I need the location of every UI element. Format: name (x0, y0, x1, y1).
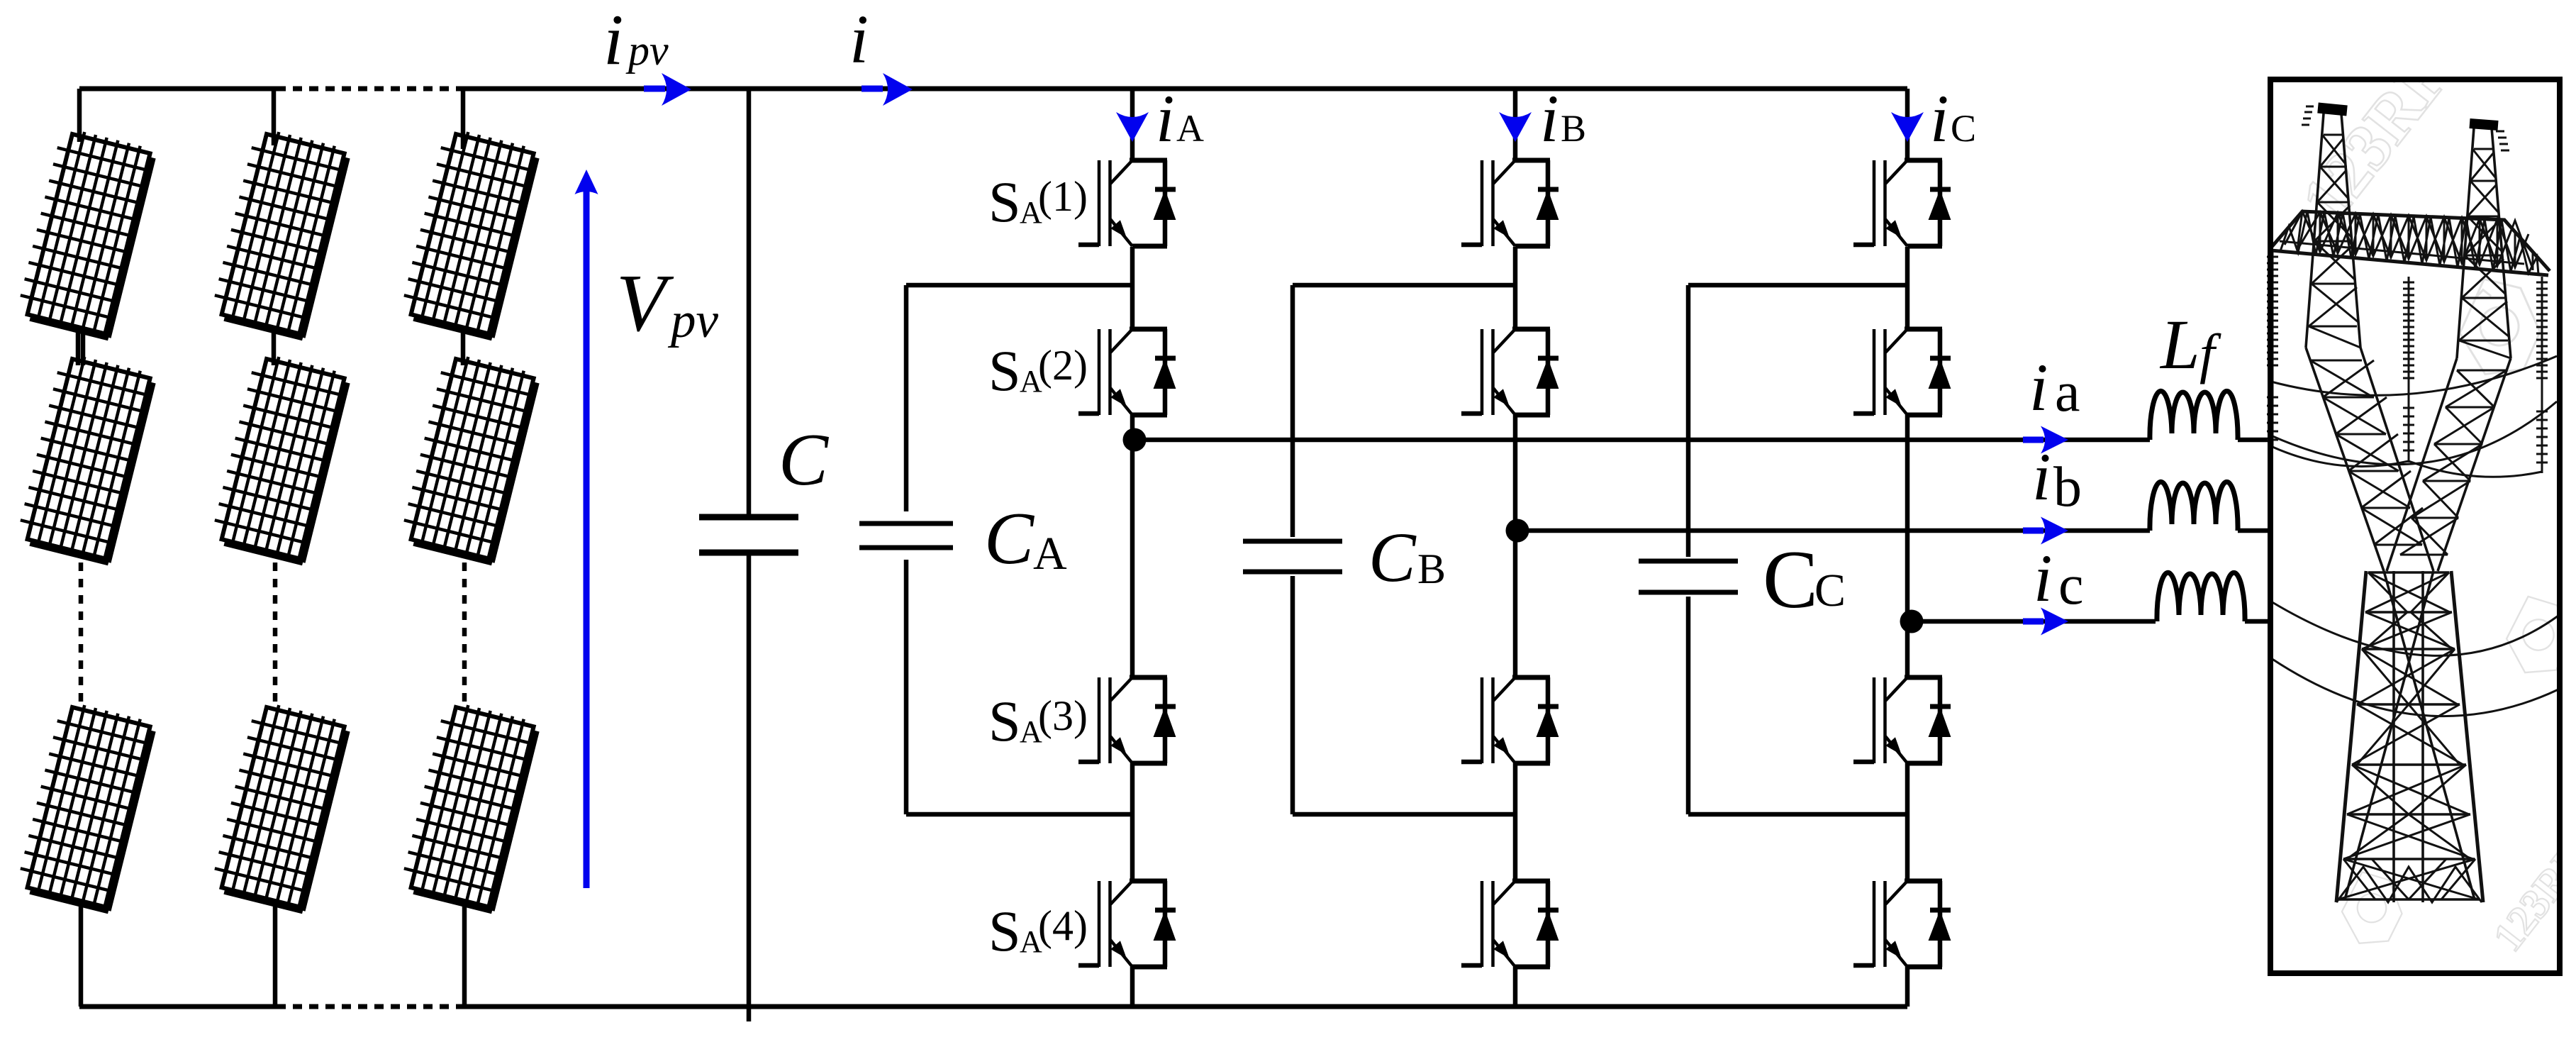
svg-text:(4): (4) (1038, 902, 1088, 949)
svg-text:pv: pv (625, 27, 669, 74)
svg-text:i: i (849, 1, 869, 77)
svg-text:i: i (1156, 81, 1174, 156)
svg-text:C: C (1951, 107, 1976, 150)
svg-text:S: S (988, 170, 1021, 234)
svg-text:(1): (1) (1038, 173, 1088, 220)
svg-text:i: i (2034, 541, 2052, 616)
svg-text:V: V (616, 258, 674, 348)
svg-text:C: C (779, 418, 830, 501)
svg-text:B: B (1417, 545, 1446, 592)
svg-text:L: L (2159, 305, 2200, 384)
svg-text:C: C (1368, 518, 1417, 597)
svg-text:pv: pv (667, 293, 719, 348)
svg-text:B: B (1561, 107, 1586, 150)
svg-text:C: C (1763, 534, 1818, 626)
svg-text:i: i (1540, 81, 1559, 156)
svg-text:A: A (1176, 107, 1204, 150)
svg-text:A: A (1033, 528, 1067, 580)
svg-text:i: i (2032, 439, 2051, 514)
svg-text:S: S (988, 338, 1021, 403)
svg-text:(3): (3) (1038, 692, 1088, 739)
svg-text:C: C (1814, 565, 1846, 616)
svg-text:(2): (2) (1038, 342, 1088, 389)
svg-text:i: i (603, 0, 623, 80)
svg-text:S: S (988, 899, 1021, 963)
svg-text:C: C (984, 497, 1035, 580)
svg-text:i: i (2029, 350, 2048, 425)
svg-text:a: a (2055, 361, 2080, 423)
svg-text:i: i (1930, 81, 1948, 156)
svg-text:S: S (988, 689, 1021, 753)
svg-text:b: b (2053, 456, 2082, 519)
svg-text:c: c (2058, 554, 2084, 616)
